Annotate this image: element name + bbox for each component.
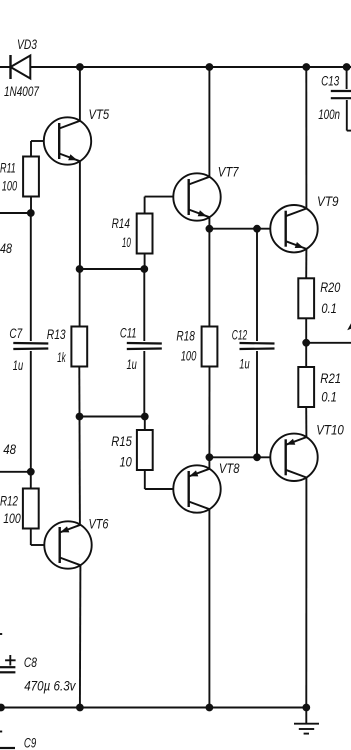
- svg-text:R20: R20: [320, 280, 340, 295]
- svg-text:1u: 1u: [13, 358, 24, 373]
- svg-text:1N4007: 1N4007: [4, 84, 39, 99]
- svg-text:VD3: VD3: [17, 37, 37, 52]
- svg-text:1u: 1u: [239, 356, 250, 371]
- svg-text:0.1: 0.1: [321, 301, 337, 316]
- svg-text:100: 100: [2, 179, 18, 194]
- svg-text:VT9: VT9: [317, 194, 339, 209]
- svg-text:C13: C13: [321, 74, 339, 89]
- svg-text:R21: R21: [320, 371, 341, 386]
- svg-text:C7: C7: [9, 326, 22, 341]
- svg-text:VT6: VT6: [89, 517, 109, 532]
- svg-text:48: 48: [3, 442, 16, 457]
- svg-text:C11: C11: [120, 325, 137, 340]
- svg-text:R15: R15: [111, 434, 132, 449]
- svg-text:470µ 6.3v: 470µ 6.3v: [24, 678, 76, 693]
- svg-text:48: 48: [0, 241, 12, 256]
- svg-text:0.1: 0.1: [321, 390, 337, 405]
- svg-text:1u: 1u: [127, 357, 138, 372]
- svg-text:R18: R18: [176, 329, 195, 344]
- svg-text:10: 10: [120, 455, 133, 470]
- svg-text:VT7: VT7: [218, 165, 239, 180]
- svg-text:C8: C8: [24, 655, 37, 670]
- svg-text:C12: C12: [232, 327, 248, 342]
- svg-text:R13: R13: [47, 327, 66, 342]
- svg-text:VT8: VT8: [219, 461, 240, 476]
- svg-text:VT5: VT5: [89, 107, 110, 122]
- svg-text:R11: R11: [0, 161, 16, 176]
- svg-text:10: 10: [122, 235, 131, 250]
- svg-text:100: 100: [3, 511, 21, 526]
- svg-text:R14: R14: [112, 216, 130, 231]
- svg-text:1k: 1k: [57, 350, 66, 365]
- svg-text:VT10: VT10: [316, 423, 344, 438]
- svg-text:C9: C9: [24, 735, 37, 750]
- svg-text:100: 100: [181, 349, 197, 364]
- svg-text:100n: 100n: [318, 107, 340, 122]
- svg-text:R12: R12: [0, 494, 18, 509]
